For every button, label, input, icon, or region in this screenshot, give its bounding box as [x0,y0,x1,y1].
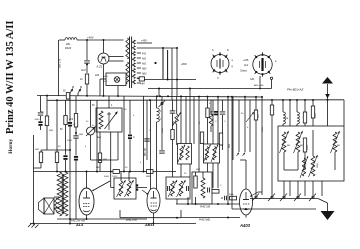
wire drop x194 [193,97,195,145]
capacitor C11 blob [214,111,218,115]
wire drop x213 [212,100,214,111]
wire to ground [318,199,328,212]
wire drop x97 [96,100,98,171]
label PB LB [145,148,147,156]
svg-text:A.Z1: A.Z1 [96,65,103,69]
label PHIZ N/B1 [199,219,211,222]
label AL4 [75,223,84,227]
wire [137,78,139,79]
title text Horny [8,139,14,154]
label n10 [162,127,164,133]
rf choke [157,108,162,122]
rail into V5 [111,187,147,189]
pilot lamp box [106,73,126,86]
svg-text:Prinz 40 W/II W 135 A/II: Prinz 40 W/II W 135 A/II [5,21,16,134]
shield box 3 [192,172,212,204]
resistor R15 [311,100,317,118]
antenna [322,77,333,100]
filter capacitor C14 plate b [167,50,169,81]
heater rail [57,218,147,220]
wire tap2 [137,47,177,49]
wire drop x47 [46,96,48,116]
coil L6 [209,100,213,132]
wire drop x177 [176,47,178,96]
wire drop x199 [196,97,204,178]
filter capacitor C14 plate a [162,47,164,79]
speaker wires [54,197,60,208]
resistor R3 [35,149,43,163]
tuning coil T3 [309,155,318,177]
label +B00 [154,62,187,66]
svg-text:WtL: WtL [66,42,71,46]
wire tap5 [137,63,147,66]
resistor R20 [98,153,108,163]
resistor R13 [270,105,273,115]
title text Prinz 40 W/II W 135 A/II [5,21,16,134]
label n24 [96,167,101,169]
resistor R5 [69,114,78,128]
label n5 [85,146,87,148]
fuse TV [139,77,144,86]
label ACB [103,75,108,83]
bus rail lower [47,99,344,102]
coil above box a [283,100,289,126]
label n2 [58,146,61,148]
IF coil 2a [168,180,177,197]
resistor R2 [41,112,49,126]
tuning coil T2 [294,131,303,153]
wire tap1 [137,40,152,44]
svg-text:5000: 5000 [262,126,264,132]
capacitor C6 [220,112,226,114]
IF cap 2a [168,186,170,191]
speaker [39,198,55,214]
tuning coil T1 [280,131,289,153]
label n4 [79,134,84,136]
wire box bottom [100,132,118,172]
bus rail upper [37,96,262,98]
svg-text:+45V: +45V [141,40,147,43]
wire drop x57 [56,100,58,172]
capacitor C2b blob [38,121,47,130]
label n3 [67,140,73,142]
IF coil 3 [201,178,205,198]
svg-text:5000: 5000 [67,140,73,142]
wire [86,84,88,96]
wire [41,126,47,153]
capacitor C10 [221,196,226,201]
wire [172,140,174,182]
output transformer [57,172,68,216]
wire tie [47,149,71,151]
capacitor C3 [128,135,135,140]
svg-text:A00: A00 [142,58,147,61]
wire [34,163,42,169]
wire drop x262 [261,97,263,195]
svg-text:5000: 5000 [162,127,164,133]
wire [222,115,224,150]
wire tube V5 top [151,96,157,189]
resistor R4 [64,116,67,125]
transformer TR1 core [130,37,132,89]
IF cap 3 [208,188,210,193]
label AB1 AB2 [254,84,264,87]
svg-text:+B00: +B00 [181,63,187,66]
wire [86,64,88,74]
label n27 [140,162,142,164]
rail into V6 [176,197,240,205]
wire [271,115,273,195]
tube V5 AB11 [147,188,160,213]
label n8 [133,115,135,117]
label n20 [287,145,290,147]
label 50N [59,58,62,68]
wire drop x181 [180,96,182,181]
resistor R17 [229,194,237,200]
capacitor C13 blob [74,156,78,219]
junction dots on rails [46,95,329,102]
wire tube V5 grid arrow [142,190,148,195]
svg-text:PHIZ N/B1: PHIZ N/B1 [199,219,211,222]
wire drop x186 [185,96,187,143]
wire [129,140,131,172]
wire tap4 [137,58,147,61]
capacitor C1 [84,61,90,63]
wire [75,127,77,136]
pilot lamp [114,77,120,83]
label n14 [215,121,217,123]
wire drop x218 [217,97,219,188]
svg-text:AB1+AB2: AB1+AB2 [254,84,264,87]
svg-text:5000: 5000 [104,176,110,178]
wire tap9 [137,83,145,86]
wire drop x143 [143,96,145,171]
bottom rail right [232,208,316,210]
svg-text:C: C [160,110,162,113]
wire [212,115,214,188]
wire drop x147 [146,100,148,160]
wire drop x272 [271,100,273,105]
label AC2 [81,69,86,72]
svg-text:AC2: AC2 [81,69,86,72]
wire box top [108,96,110,108]
IF transformer can 2 [166,177,190,199]
label n1 [49,130,54,132]
label n30 [220,185,222,187]
coil L5 with core [173,96,182,145]
svg-text:A00: A00 [142,63,147,66]
capacitor C2 [38,113,44,115]
wire tube V6 grid [250,192,262,197]
resistor R10 [194,176,197,188]
wire heater a [109,56,124,58]
resistor R9 [171,130,174,140]
wire tap6 [137,68,147,71]
label n31 [86,121,95,127]
label n26 [104,176,110,178]
capacitor C7 blob [114,184,118,190]
tuning coil T4 [331,131,340,153]
trimmer arrow [105,112,118,130]
wire [255,120,257,195]
label 220 [95,74,100,77]
svg-text:A403: A403 [239,223,251,228]
wire tube V4 bottom [86,215,88,219]
switch contacts [252,194,316,202]
svg-text:5000: 5000 [35,119,41,121]
wire socket V2 drop [259,76,261,89]
wire right edge [343,100,345,126]
wire drop x110 [110,132,112,188]
wire supply drop 3 [171,48,173,100]
tube V4 AL4 [79,188,94,215]
resistor R14 [303,138,309,152]
tube socket V1 pinout [211,52,229,75]
capacitor C8 blob [134,184,138,190]
wire drop x162 [161,96,163,150]
wire rectifier bottom [103,64,105,96]
svg-text:C: C [133,136,135,139]
label n9 [149,130,151,132]
svg-text:AL4: AL4 [244,64,249,67]
label AB11 [144,223,154,227]
svg-text:AZ1: AZ1 [250,78,255,81]
resistor R1 [80,74,89,84]
label n17 [241,113,244,115]
resistor R16 [212,190,219,194]
ground [321,211,335,220]
chassis hatch [28,224,39,229]
label n16 [229,143,231,148]
label n18 [247,127,249,129]
svg-text:AB0: AB0 [142,73,147,76]
fuse on rail [63,91,70,100]
label n11 [173,120,175,125]
label AZ1 [96,65,103,69]
wire drop x250 [246,100,254,152]
wire B+ line [140,79,196,81]
svg-text:PHIZ X/B: PHIZ X/B [200,206,210,209]
svg-text:f f: f f [217,77,219,80]
IF cap 2b [187,186,189,191]
wire tube V6 bottom [245,215,247,218]
label 50 [92,105,113,107]
wire in-box links [284,130,335,170]
svg-text:D423: D423 [65,46,72,50]
wire drop x65 [65,100,67,115]
svg-text:220: 220 [95,74,100,77]
label n29 [196,169,201,171]
IF coil 1a [117,180,126,197]
tube socket V2 pinout [253,52,272,76]
svg-text:ACB: ACB [103,75,108,78]
trimmer capacitor [86,127,96,137]
wire +40V rail [59,36,124,41]
coil L1 antenna choke [65,38,77,50]
wire diagonal to V4 [92,181,110,191]
wire [207,118,209,173]
wire inside box [107,112,111,130]
socket V1 labels [212,49,234,80]
transformer TR1 primary [126,38,129,84]
wire lamp left [100,79,106,96]
svg-text:Horny: Horny [8,139,14,154]
oscillator coil box [96,108,122,132]
label PHIZ 45V [126,219,137,222]
resistor R18 [200,132,203,144]
switch bus [250,198,318,200]
svg-text:AB11: AB11 [144,223,154,227]
svg-text:+40V: +40V [87,36,94,40]
label n13 [209,103,211,105]
wire drop x207 [207,97,209,108]
capacitor C5 [210,112,216,114]
svg-text:D: D [227,49,229,52]
wire [312,118,314,126]
svg-text:C: C [160,118,162,121]
IF can upper b [204,144,220,163]
IF transformer can 1 [114,178,136,199]
label n15 [224,121,226,123]
wire heater b [109,60,124,62]
wire heater bus [148,88,272,90]
label PH+B01+AZ [287,88,303,92]
contact arrows [70,86,81,96]
label n7 [124,109,127,111]
svg-text:+245: +245 [243,59,249,62]
rail under V6 [181,210,240,219]
wire drop x228 [227,97,229,204]
wire drop x190b [189,88,191,97]
tube V6 A403 [240,189,253,215]
label n6 [97,136,102,139]
label n28 [184,173,187,175]
label n12 [199,121,201,124]
wire [121,172,129,182]
wire drop x38 [40,96,42,113]
label n21 [300,145,303,147]
wire left drop [58,40,60,96]
label n19 [262,126,264,132]
bottom rail [30,223,196,225]
label PHIZ 25V [70,220,85,223]
capacitor C15 [170,111,176,113]
svg-text:1000: 1000 [315,112,317,118]
wire terminal x271 [270,77,272,88]
wire drop x172 [172,100,174,111]
wire tie y160 [91,159,119,161]
wire tube V5 bottom [153,213,155,218]
svg-text:PH+B01+AZ: PH+B01+AZ [287,88,303,92]
oscillator coil [99,111,103,129]
capacitor C9 [159,151,165,153]
capacitor C4 [144,139,150,141]
wire drops below box [284,100,328,196]
svg-text:AB0: AB0 [142,68,147,71]
wire drop x245 [243,97,246,156]
wire tap7 [137,73,147,76]
wire tube V5 rail [120,210,181,224]
wire drop x190 [189,97,191,178]
wire tap3 [137,53,147,56]
resistor R4b [55,152,58,163]
label A403 [239,223,251,228]
wire [90,100,92,160]
wire tap8 [137,78,145,81]
socket V2 labels [240,59,277,81]
label PHIZ X/B [200,206,210,209]
wire [172,113,174,129]
resistor R6 [112,170,120,178]
resistor R12 [254,97,260,120]
tuning box [278,126,344,181]
speaker voice coil [55,198,58,212]
svg-text:1000: 1000 [307,144,309,150]
wire drop x239 [237,100,240,156]
tuning coil T5 [300,156,308,178]
wire drop x233 [232,97,234,160]
resistor R11 [206,108,209,118]
wire rectifier top [103,39,105,53]
svg-text:Chass: Chass [240,70,248,73]
wire drop x130 [129,100,131,134]
svg-text:PHIZ 4.5V: PHIZ 4.5V [126,219,137,222]
wire lamp drop [117,86,119,97]
IF coil 2b [177,180,186,197]
wire [60,125,68,173]
IF coil 1b [125,180,134,197]
label n23 [337,145,340,147]
svg-text:50N 17a: 50N 17a [59,58,62,68]
wire drop x232 [231,97,233,209]
resistor above box [303,100,306,126]
wire tube V6 top [240,160,246,189]
label n22 [317,163,319,168]
transformer TR1 secondary [132,40,135,84]
wire node A drop [86,39,88,60]
svg-text:4V0: 4V0 [142,54,147,56]
wire drop x76 [75,96,77,113]
IF can upper a [178,144,192,165]
wire tube V4 top [86,172,88,189]
wire drop x70 [68,96,76,224]
wire drop x290 [289,100,291,126]
wire drop x222 [222,100,224,111]
resistor R7 [146,170,153,178]
wire drop x124 [123,96,125,172]
wire [75,132,77,156]
capacitor C12 [73,136,79,138]
mid rail [34,171,177,173]
resistor R19 [219,133,222,145]
wire drop x159 [158,88,160,97]
label n25 [125,167,128,169]
wire can2 bottom [176,199,178,204]
coil above box b [297,100,299,126]
switch contact near rail [159,101,166,108]
wire [35,116,41,121]
wire speaker left [33,135,35,224]
rectifier tube AZ1 [98,53,109,64]
